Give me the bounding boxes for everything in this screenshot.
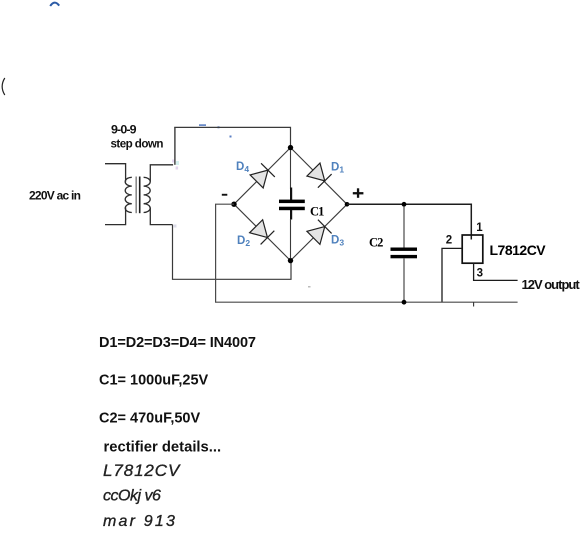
- svg-text:C2: C2: [369, 235, 383, 249]
- transformer core: [135, 177, 137, 214]
- svg-text:D3: D3: [331, 235, 344, 248]
- svg-text:D4: D4: [236, 161, 249, 174]
- svg-text:3: 3: [477, 268, 483, 280]
- label minus sign: [222, 194, 228, 196]
- svg-text:D2: D2: [237, 235, 250, 248]
- diode D4: [250, 163, 275, 188]
- svg-text:ccOkj v6: ccOkj v6: [103, 488, 161, 505]
- ground rail tick: [473, 302, 475, 306]
- svg-text:1: 1: [476, 222, 483, 234]
- svg-text:D1=D2=D3=D4= IN4007: D1=D2=D3=D4= IN4007: [99, 335, 256, 351]
- stray parenthesis mark: [2, 78, 5, 95]
- diode D2: [249, 219, 274, 244]
- stray faint dot: [308, 286, 311, 288]
- svg-text:2: 2: [446, 235, 452, 247]
- wire secondary bottom to bridge bottom node: [173, 225, 292, 280]
- capacitor C1: [279, 150, 305, 259]
- capacitor C2: [391, 206, 418, 302]
- svg-text:C2= 470uF,50V: C2= 470uF,50V: [99, 411, 200, 427]
- svg-text:12V output: 12V output: [522, 277, 581, 292]
- svg-text:9-0-9: 9-0-9: [111, 123, 137, 137]
- svg-text:L7812CV: L7812CV: [103, 461, 181, 480]
- wire bridge edge left-top: [234, 148, 291, 205]
- node minus junction: [231, 202, 236, 207]
- wire plus rail to regulator: [347, 204, 471, 239]
- svg-text:step down: step down: [111, 137, 164, 150]
- node top junction: [288, 145, 293, 150]
- transformer secondary winding: [144, 165, 174, 225]
- svg-text:220V ac in: 220V ac in: [29, 189, 81, 203]
- pin 3 wire: [474, 263, 518, 280]
- pin 2 wire: [442, 248, 462, 302]
- svg-text:rectifier details...: rectifier details...: [104, 440, 222, 456]
- wire minus node to ground rail: [216, 204, 518, 302]
- wire top rail: [174, 127, 290, 147]
- regulator U1 L7812CV: [462, 235, 483, 263]
- diode D3: [307, 220, 332, 245]
- label plus sign: [353, 188, 364, 198]
- stray blue caret mark: [50, 3, 59, 6]
- stray blue dashes near top rail: [199, 124, 232, 137]
- wire bridge edge top-right: [291, 148, 348, 205]
- node C2 top junction: [402, 202, 407, 207]
- svg-text:D1: D1: [331, 162, 344, 175]
- svg-text:L7812CV: L7812CV: [490, 242, 547, 258]
- svg-text:C1: C1: [310, 204, 324, 218]
- wire bridge edge bottom-right: [291, 204, 348, 260]
- node bottom junction: [288, 258, 293, 263]
- svg-text:C1= 1000uF,25V: C1= 1000uF,25V: [99, 372, 209, 388]
- stray speckles near transformer joint: [172, 160, 179, 228]
- wire secondary top to top rail: [174, 127, 176, 164]
- node plus junction: [345, 202, 350, 207]
- transformer T1 primary winding: [105, 164, 132, 225]
- svg-text:mar 913: mar 913: [103, 513, 177, 530]
- node C2 bottom junction: [402, 300, 407, 305]
- diode D1: [307, 163, 332, 188]
- wire bridge edge left-bottom: [234, 204, 291, 260]
